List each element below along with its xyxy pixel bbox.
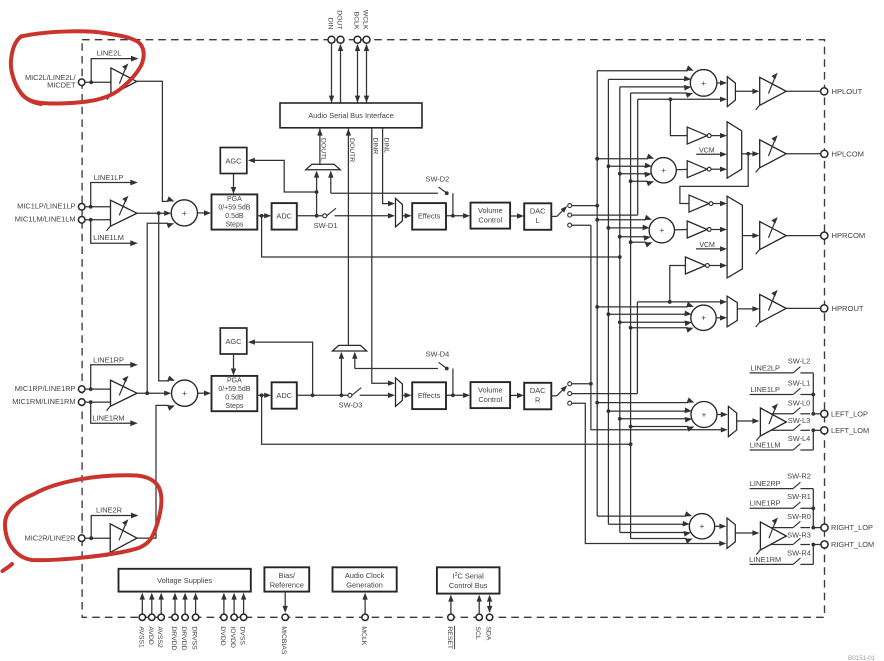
switch SW-R4 with LINE1RM: [750, 563, 794, 565]
wire LINE2R tap: [91, 516, 132, 539]
wire B1 to HPLCOM mux: [711, 135, 723, 137]
bus wire column 3 (PGA L): [619, 87, 621, 533]
wire effects L out to SW-D2: [452, 193, 454, 216]
wire ROM to pin: [813, 544, 820, 546]
svg-text:ADC: ADC: [276, 212, 292, 221]
mux HPLOUT: [727, 77, 735, 107]
svg-text:SW-R1: SW-R1: [787, 492, 811, 501]
summing node right ADC mixer: [172, 380, 198, 406]
dac R box: [524, 383, 551, 410]
agc L box: [220, 148, 247, 174]
pin IOVDD: [233, 598, 235, 614]
svg-text:LINE1RM: LINE1RM: [92, 413, 124, 422]
svg-text:+: +: [659, 225, 664, 235]
wire DACL c1 to bus: [572, 205, 598, 207]
adc L box: [272, 203, 297, 230]
amp MIC2R: [110, 524, 137, 553]
amp HPLOUT driver: [760, 77, 787, 105]
wire DINR from ASI: [372, 128, 390, 383]
wire SW-D1 to effects mux: [335, 215, 391, 217]
svg-text:Bias/: Bias/: [279, 571, 296, 580]
adc R box: [272, 382, 297, 408]
bus wire column 4 (PGA R): [630, 93, 632, 539]
wire LEFT_LO sum to mux: [717, 414, 723, 416]
svg-text:SW-R4: SW-R4: [787, 548, 811, 557]
buffer B3: [689, 195, 709, 212]
wire ADC R to DOUT mux R: [340, 353, 342, 395]
pin MCLK: [364, 598, 366, 614]
wire volume R to DAC R: [510, 394, 519, 396]
switch SW-D2: [331, 192, 438, 194]
pin DOUT: [337, 36, 344, 43]
HPROUT sum in2: [608, 313, 685, 315]
svg-text:LINE1RP: LINE1RP: [750, 499, 781, 508]
pin DRVDD: [174, 598, 176, 614]
wire AGC R to PGA R: [233, 354, 235, 371]
amp MIC1R: [111, 380, 138, 406]
svg-text:LINE1RP: LINE1RP: [93, 355, 124, 364]
wire DACL c3 to bus: [572, 224, 591, 226]
mux effects R: [396, 378, 403, 407]
wire DOUTL into ASI: [319, 129, 321, 165]
wire LINE1LP tap: [91, 183, 132, 207]
wire AGC L input tap: [253, 160, 317, 192]
svg-text:DOUTR: DOUTR: [348, 138, 355, 162]
amp RIGHT_LO driver: [760, 522, 786, 550]
wire PGA L to output bus: [262, 216, 620, 257]
svg-text:DOUTL: DOUTL: [320, 138, 327, 161]
bias/reference box: [264, 567, 309, 591]
svg-text:MIC1LM/LINE1LM: MIC1LM/LINE1LM: [15, 215, 76, 224]
svg-text:0/+59.5dB: 0/+59.5dB: [218, 205, 250, 212]
svg-text:AVSS2: AVSS2: [156, 626, 163, 648]
bus wire column 2: [607, 79, 609, 524]
RIGHT_LO sum in4: [631, 538, 687, 540]
wire DACR c2 to bus: [572, 393, 638, 395]
audio serial bus interface box: [280, 103, 422, 128]
svg-text:LINE2R: LINE2R: [96, 506, 122, 515]
bus wire Vh upper (DAC L bypass): [637, 99, 639, 215]
summing node left ADC mixer: [171, 200, 197, 226]
summing node HPRCOM mixer: [649, 218, 674, 243]
pin SDA: [489, 600, 491, 613]
pin SCL: [478, 600, 480, 614]
svg-text:DVDD: DVDD: [219, 626, 226, 645]
svg-text:DAC: DAC: [530, 386, 546, 395]
amp LEFT_LO driver: [760, 408, 786, 436]
svg-text:DVSS: DVSS: [239, 626, 246, 645]
buffer B2: [687, 161, 707, 178]
wire DOUT from ASI: [340, 45, 342, 104]
svg-text:Effects: Effects: [418, 212, 441, 221]
svg-text:SW-D2: SW-D2: [426, 174, 450, 183]
svg-text:+: +: [182, 208, 187, 218]
svg-text:IOVDD: IOVDD: [229, 626, 236, 648]
wire right sum to PGA: [198, 392, 206, 394]
LEFT_LO sum in1: [597, 402, 688, 404]
svg-text:SW-L1: SW-L1: [788, 378, 810, 387]
svg-text:HPROUT: HPROUT: [832, 304, 864, 313]
HPLOUT sum in1: [597, 70, 688, 72]
svg-text:SW-R3: SW-R3: [787, 530, 811, 539]
bus wire Vh lower (DAC R bypass): [636, 302, 638, 394]
svg-text:AVSS1: AVSS1: [137, 626, 144, 648]
wire MIC2R amp out: [137, 405, 167, 538]
wire PGA L to ADC L: [257, 215, 266, 217]
svg-text:Audio Serial Bus Interface: Audio Serial Bus Interface: [308, 111, 393, 120]
svg-text:+: +: [701, 78, 706, 88]
pga L box: [212, 194, 258, 229]
wire B2 to HPLCOM mux: [711, 168, 723, 170]
amp MIC2L: [111, 68, 137, 95]
svg-text:BCLK: BCLK: [353, 12, 360, 30]
wire Vh to HPROUT mux: [637, 301, 722, 303]
switch SW-L0: [770, 413, 793, 415]
svg-text:Steps: Steps: [225, 222, 243, 229]
pin DVDD: [223, 598, 225, 614]
wire amp to HPLOUT pin: [786, 90, 821, 92]
wire line-in bus to LOP: [812, 373, 814, 414]
amp HPLCOM driver: [760, 140, 787, 168]
wire ADC L to DOUT mux L: [316, 172, 318, 216]
wire RIGHT_LO mux to amp: [735, 532, 755, 534]
HPRCOM sum in4: [631, 241, 647, 243]
wire HPLOUT mux to amp: [735, 90, 755, 92]
svg-text:DAC: DAC: [530, 207, 546, 216]
svg-text:MCLK: MCLK: [360, 626, 367, 645]
svg-text:WCLK: WCLK: [362, 10, 369, 30]
svg-text:DRVDD: DRVDD: [170, 626, 177, 650]
wire B5 to HPRCOM mux: [709, 265, 722, 267]
svg-text:MIC2R/LINE2R: MIC2R/LINE2R: [25, 534, 76, 543]
wire amp to HPROUT pin: [786, 307, 821, 309]
switch SW-L4 with LINE1LM: [750, 449, 794, 451]
wire effects mux L out: [402, 215, 406, 217]
switch SW-D4: [355, 368, 438, 370]
svg-text:0.5dB: 0.5dB: [225, 395, 244, 402]
svg-text:R: R: [535, 396, 540, 405]
svg-text:Steps: Steps: [225, 403, 243, 410]
svg-text:PGA: PGA: [227, 196, 242, 203]
HPLOUT sum in2: [608, 78, 685, 80]
RIGHT_LO sum in3: [620, 532, 685, 534]
node MIC1LP pin: [78, 204, 85, 211]
HPROUT sum in4: [631, 327, 688, 329]
right sum input from MIC1L: [167, 380, 169, 382]
HPLOUT sum in3: [620, 86, 686, 88]
svg-text:LINE2RP: LINE2RP: [750, 479, 781, 488]
wire MIC1LP to amp: [85, 206, 111, 208]
HPRCOM sum in2: [608, 227, 643, 229]
mux HPLCOM: [727, 122, 742, 178]
wire PGA R to ADC R: [257, 394, 266, 396]
pin HPLOUT: [821, 88, 828, 95]
wire SW-R4 to ROM: [812, 545, 814, 565]
pin WCLK: [363, 36, 370, 43]
wire LOP to pin: [813, 413, 820, 415]
wire LINE2L tap: [91, 59, 132, 83]
buffer B1: [687, 127, 707, 144]
node MIC1RP pin: [78, 386, 85, 393]
buffer B5: [685, 257, 705, 274]
wire SW-D3 to effects mux: [360, 394, 391, 396]
wire effects R to volume R: [446, 394, 466, 396]
HPROUT sum in3: [620, 321, 686, 323]
pga R box: [212, 376, 258, 411]
svg-text:RIGHT_LOM: RIGHT_LOM: [831, 540, 874, 549]
switch DAC R mute: [551, 395, 557, 397]
svg-text:LINE2LP: LINE2LP: [750, 363, 780, 372]
left sum input from MIC1R: [167, 222, 168, 224]
pin HPLCOM: [821, 150, 828, 157]
wire Vh to HPLOUT mux: [638, 98, 723, 100]
wire ADC R out: [297, 394, 348, 396]
mux HPROUT: [727, 296, 737, 327]
HPRCOM sum in3: [620, 236, 645, 238]
pin RIGHT_LOP: [821, 524, 828, 531]
svg-text:SW-R0: SW-R0: [787, 512, 811, 521]
pin AVDD: [151, 598, 153, 614]
switch SW-L1 with LINE1LP: [750, 394, 794, 396]
agc R box: [220, 328, 247, 354]
switch SW-D3: [348, 393, 352, 397]
RIGHT_LO sum in1: [597, 515, 686, 517]
LEFT_LO sum in4: [631, 426, 689, 428]
svg-text:Audio Clock: Audio Clock: [345, 571, 385, 580]
mux DOUTR: [332, 345, 366, 351]
svg-text:LINE1LP: LINE1LP: [94, 173, 124, 182]
wire PGA R to output bus: [262, 395, 631, 444]
mux HPRCOM: [727, 196, 742, 278]
pin RIGHT_LOM: [821, 541, 828, 548]
svg-text:AGC: AGC: [225, 156, 242, 165]
svg-text:LINE1RM: LINE1RM: [749, 555, 781, 564]
svg-text:L: L: [536, 216, 540, 225]
wire DOUTR mux in2: [354, 353, 356, 368]
svg-text:SW-D1: SW-D1: [314, 221, 338, 230]
bus wire column 1 (DAC L): [596, 71, 598, 516]
HPLCOM sum in2: [608, 165, 646, 167]
svg-text:DINR: DINR: [372, 138, 379, 155]
pin DRVSS: [195, 598, 197, 614]
svg-text:PGA: PGA: [227, 378, 242, 385]
svg-text:Reference: Reference: [270, 580, 304, 589]
summing node HPROUT mixer: [691, 305, 716, 330]
wire line-in bus to ROP: [812, 489, 814, 528]
svg-text:HPRCOM: HPRCOM: [832, 231, 866, 240]
svg-text:AVDD: AVDD: [147, 626, 154, 644]
wire MIC1R to left sum: [147, 223, 167, 393]
bus wire Va (DAC L c3 to left line mux): [591, 225, 722, 430]
amp HPROUT driver: [760, 294, 787, 322]
svg-text:VCM: VCM: [699, 148, 715, 155]
svg-text:LEFT_LOP: LEFT_LOP: [831, 409, 868, 418]
wire MIC2L to amp: [85, 81, 111, 83]
wire LINE1LM tap: [91, 220, 132, 243]
svg-text:SW-L4: SW-L4: [788, 434, 810, 443]
effects L box: [412, 203, 446, 230]
svg-text:LINE2L: LINE2L: [97, 49, 122, 58]
wire DIN to ASI: [331, 43, 333, 103]
wire MIC1RM to amp: [85, 401, 111, 403]
svg-text:0.5dB: 0.5dB: [225, 213, 244, 220]
wire AGC R input tap: [253, 342, 313, 395]
wire HPLCOM out crossover to B3: [680, 154, 748, 204]
svg-text:Control Bus: Control Bus: [449, 581, 488, 590]
pin DVSS: [243, 598, 245, 614]
wire MIC1R amp out: [137, 392, 166, 394]
wire MIC2L amp out: [137, 81, 167, 201]
pin LEFT_LOP: [821, 410, 828, 417]
red annotation circle around LINE2L input: [11, 31, 144, 103]
right sum input from MIC2R: [167, 404, 169, 406]
wire B3 to HPRCOM mux: [713, 203, 723, 205]
wire DACR c3 to line mux R: [572, 403, 722, 543]
wire HPLCOM sum to buffer B2: [676, 168, 687, 170]
wire HPRCOM mux to amp: [742, 235, 755, 237]
svg-text:AGC: AGC: [225, 337, 242, 346]
pin MICBIAS: [284, 592, 286, 608]
pin AVSS2: [160, 598, 162, 614]
wire VCM upper: [696, 153, 722, 155]
HPLCOM sum in3: [620, 173, 646, 175]
buffer B4: [687, 221, 707, 238]
node MIC2L pin: [78, 79, 85, 86]
svg-text:SCL: SCL: [474, 626, 481, 639]
mux LEFT_LO: [728, 406, 736, 436]
svg-text:SW-D4: SW-D4: [426, 350, 450, 359]
volume control R box: [471, 382, 511, 408]
svg-text:+: +: [700, 521, 705, 531]
pin AVSS1: [141, 598, 143, 614]
svg-text:LINE1LM: LINE1LM: [750, 440, 781, 449]
HPROUT sum in1: [597, 306, 688, 308]
wire amp to HPRCOM pin: [786, 235, 821, 237]
amp MIC1L: [111, 200, 138, 226]
switch SW-R1 with LINE1RP: [750, 507, 794, 509]
voltage supplies box: [119, 569, 251, 592]
wire RIGHT_LO sum to mux: [715, 525, 722, 527]
svg-text:HPLCOM: HPLCOM: [832, 149, 865, 158]
svg-text:Generation: Generation: [346, 580, 383, 589]
pin DIN: [328, 36, 335, 43]
svg-text:ADC: ADC: [276, 391, 292, 400]
svg-text:LINE1LM: LINE1LM: [93, 233, 124, 242]
wire effects L to volume L: [446, 215, 466, 217]
wire volume L to DAC L: [510, 215, 519, 217]
svg-text:MIC1LP/LINE1LP: MIC1LP/LINE1LP: [17, 202, 75, 211]
wire left sum to PGA: [197, 212, 205, 214]
wire amp to HPLCOM pin: [786, 153, 821, 155]
svg-text:Volume: Volume: [478, 206, 503, 215]
svg-text:LEFT_LOM: LEFT_LOM: [831, 426, 869, 435]
svg-text:SW-D3: SW-D3: [339, 401, 363, 410]
pin DRVDD: [184, 598, 186, 614]
wire effects R out to SW-D4: [452, 369, 454, 396]
svg-text:+: +: [702, 409, 707, 419]
wire ADC L out: [297, 215, 323, 217]
mux effects L: [396, 198, 403, 227]
red annotation circle around LINE2R input: [5, 475, 162, 560]
effects R box: [412, 382, 446, 409]
svg-text:SW-L3: SW-L3: [788, 416, 810, 425]
wire AGC L to PGA L: [233, 174, 235, 190]
wire DACL c2 to bus: [572, 214, 638, 216]
chip boundary (dashed): [82, 40, 824, 618]
svg-text:0/+59.5dB: 0/+59.5dB: [218, 386, 250, 393]
wire WCLK to ASI: [366, 45, 368, 104]
node MIC1LM pin: [78, 217, 85, 224]
i2c serial control bus box: [437, 567, 500, 593]
wire BCLK to ASI: [357, 45, 359, 104]
mux RIGHT_LO: [727, 518, 735, 549]
pin HPRCOM: [821, 232, 828, 239]
wire LOM to pin: [813, 429, 820, 431]
switch DAC L mute: [551, 215, 557, 217]
svg-text:B0151-01: B0151-01: [848, 655, 876, 661]
HPLCOM sum in1: [597, 158, 648, 160]
svg-text:SW-L0: SW-L0: [788, 398, 810, 407]
wire DOUTR into ASI: [347, 129, 349, 346]
pin HPROUT: [821, 305, 828, 312]
wire HPROUT line tap to B5: [670, 266, 686, 302]
summing node HPLCOM mixer: [651, 158, 676, 183]
wire VCM lower: [696, 248, 723, 250]
wire HPRCOM sum to buffer B4: [675, 229, 688, 231]
mux DOUTL: [306, 164, 341, 170]
summing node LEFT_LO mixer: [691, 402, 717, 428]
HPRCOM sum in1: [597, 219, 646, 221]
svg-text:+: +: [661, 165, 666, 175]
svg-text:MIC1RM/LINE1RM: MIC1RM/LINE1RM: [12, 397, 75, 406]
switch SW-R3: [770, 544, 793, 546]
pin BCLK: [354, 36, 361, 43]
switch SW-R2 with LINE2RP: [750, 488, 794, 490]
wire MIC1L amp out: [137, 212, 166, 214]
svg-text:DINL: DINL: [382, 138, 389, 154]
wire MIC1LM to amp: [85, 219, 111, 221]
LEFT_LO sum in2: [608, 410, 686, 412]
svg-text:VCM: VCM: [699, 242, 715, 249]
svg-text:RESET: RESET: [446, 626, 453, 649]
svg-text:HPLOUT: HPLOUT: [832, 87, 863, 96]
svg-text:Voltage Supplies: Voltage Supplies: [157, 576, 212, 585]
wire ROP to pin: [813, 527, 820, 529]
HPLCOM sum in4: [631, 180, 648, 182]
svg-text:+: +: [701, 313, 706, 323]
svg-text:Control: Control: [478, 395, 502, 404]
svg-text:SDA: SDA: [485, 626, 492, 640]
svg-text:SW-R2: SW-R2: [787, 472, 811, 481]
wire DOUTL mux in2: [330, 172, 332, 193]
HPLOUT sum in4: [631, 92, 688, 94]
wire B4 to HPRCOM mux: [711, 229, 723, 231]
pin RESET: [450, 600, 452, 614]
svg-text:Effects: Effects: [418, 391, 441, 400]
volume control L box: [471, 203, 511, 229]
wire HPLOUT sum to mux: [717, 82, 723, 84]
wire LEFT_LO mux to amp: [737, 420, 755, 422]
RIGHT_LO sum in2: [608, 523, 683, 525]
svg-text:MIC1RP/LINE1RP: MIC1RP/LINE1RP: [15, 384, 76, 393]
switch SW-D1: [323, 214, 327, 218]
left sum input from MIC2L: [167, 200, 168, 202]
dac L box: [524, 203, 551, 230]
summing node HPLOUT mixer: [690, 70, 717, 97]
svg-text:DOUT: DOUT: [336, 10, 343, 29]
wire HPLCOM mux to amp: [742, 153, 755, 155]
switch SW-R0: [770, 527, 793, 529]
